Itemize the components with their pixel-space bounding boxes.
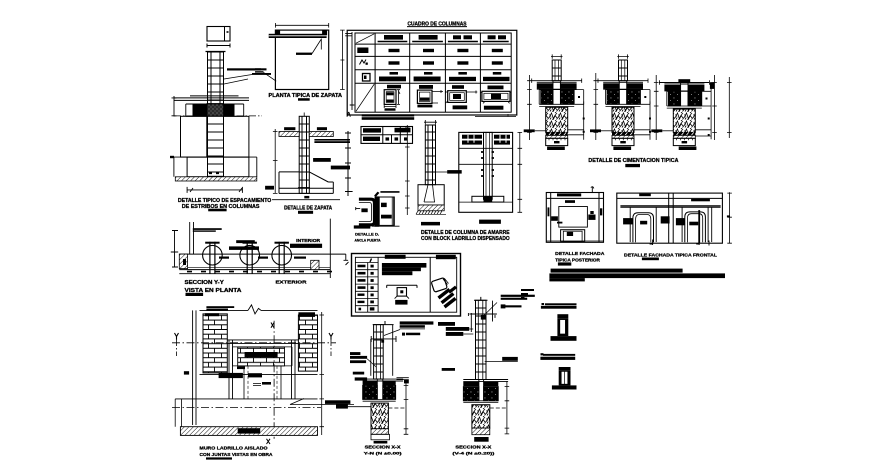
H right post bar (600, 208, 602, 215)
F2 beam bar right (627, 83, 643, 89)
I label underline (642, 258, 659, 261)
left dim line (273, 129, 278, 193)
E footing box (418, 185, 444, 205)
E box (459, 132, 513, 212)
right dim line B (340, 30, 345, 89)
M right dim (319, 312, 324, 435)
F2 block outline (606, 90, 641, 105)
N2 top annotation bar far left (438, 322, 455, 326)
E column inner bars (427, 125, 429, 185)
jamb inner line (359, 203, 372, 222)
N1 left leader line (367, 359, 376, 368)
N2 top leader (484, 303, 497, 316)
F3 right lines (695, 130, 711, 136)
F1 slab end ticks (532, 79, 582, 83)
header bar C2 (384, 35, 403, 40)
F3 bottom bar (679, 147, 697, 151)
F3 beam bar left (664, 85, 680, 91)
L annotation bar 2 (193, 230, 216, 231)
M top line (200, 309, 318, 311)
M lower wall line (175, 398, 317, 400)
F1 right cell (574, 90, 584, 105)
I bay2 inner verticals (682, 207, 712, 242)
svg-text:DETALLE D.: DETALLE D. (355, 232, 379, 237)
L column 3 cap (275, 242, 289, 244)
N1 left leader (342, 406, 371, 408)
F2 right lines (634, 101, 650, 139)
svg-text:SECCION X-X: SECCION X-X (455, 445, 491, 450)
F1 ground bar left (524, 129, 535, 132)
N2 right leader (485, 361, 518, 363)
K subtable marks col1 (358, 265, 366, 268)
E footing center black (484, 196, 493, 202)
column cap box (207, 27, 230, 42)
I outer frame (617, 193, 723, 243)
K header bar right (436, 255, 456, 259)
L column circle 3 (272, 245, 292, 265)
K right tilted plate (431, 278, 448, 293)
svg-text:CON BLOCK LADRILLO DISPENSADO: CON BLOCK LADRILLO DISPENSADO (421, 236, 510, 242)
O2 top thin bar (543, 354, 575, 356)
column top cap line (206, 51, 226, 53)
row4 small bars (390, 72, 399, 75)
M ground hatch strip (180, 427, 317, 436)
F2 speckled block left (607, 90, 619, 105)
foundation detail F2 (590, 54, 651, 145)
left dim line of slab (172, 96, 177, 117)
right box bar 2 (381, 215, 392, 219)
F3 beam bar right (688, 85, 704, 91)
N1 mid node (381, 340, 384, 343)
row2 symbol cell1 (357, 48, 368, 54)
corner cell diagonal row5 (356, 84, 374, 111)
M window frame lines (233, 347, 293, 366)
M inner door verticals (244, 366, 281, 399)
H door (561, 230, 585, 242)
L window bar wide (229, 246, 259, 250)
M Y mark right (329, 333, 333, 340)
N1 speckled block right (383, 385, 396, 399)
F label underline (625, 164, 640, 167)
F1 pier hatch strip light (546, 135, 568, 138)
F1 bottom bar (547, 147, 565, 151)
row4 symbol cell1 (363, 74, 371, 82)
E horizontal lines (459, 148, 513, 164)
row3 symbol cell1 (360, 60, 367, 65)
beam band (269, 34, 327, 38)
leader lines (224, 75, 252, 85)
svg-text:(V-4 (N ±0.20)): (V-4 (N ±0.20)) (452, 450, 495, 455)
F3 column core (681, 83, 688, 107)
M right pier top bar (298, 312, 315, 317)
svg-text:DETALLE FACHADA: DETALLE FACHADA (555, 251, 605, 257)
O2 dot (541, 353, 544, 355)
O1 door leaf white (560, 320, 566, 334)
M mid black marks (219, 373, 243, 378)
right leader bar 4 (331, 166, 350, 170)
zapata column inner bars (301, 116, 303, 193)
row2 bars (389, 49, 400, 52)
H left steps (551, 216, 558, 221)
F3 block outline (667, 91, 702, 106)
N2 leader dot (501, 304, 506, 308)
I top band bar bay2 (691, 199, 710, 202)
svg-text:SECCION Y-Y: SECCION Y-Y (185, 280, 225, 286)
F3 ground bar left (651, 129, 662, 132)
F2 lower box ticks (615, 138, 631, 140)
F2 speckled block right (627, 90, 640, 105)
zapata square (275, 30, 328, 89)
I bay1 left steps (623, 218, 633, 224)
table column dividers (375, 33, 480, 112)
header bar C5 (488, 35, 496, 39)
M X mark bottom (267, 439, 271, 444)
N2 bottom bar (474, 437, 488, 442)
N1 lower box (371, 434, 390, 440)
M left brick pier (203, 314, 227, 373)
row3 bars (389, 61, 400, 64)
E course white joints (468, 135, 506, 143)
O1 jamb body (557, 318, 568, 336)
corner block left (276, 31, 280, 35)
M top annotation bars (206, 306, 234, 308)
F2 right cell (641, 90, 651, 105)
N1 leader node (402, 333, 405, 336)
thin note line under table right (475, 114, 516, 117)
F2 stone pier (612, 107, 634, 132)
wall right (223, 116, 249, 157)
jamb inner anchor bar (361, 208, 367, 212)
N1 column (374, 325, 384, 380)
F3 pier hatch strip dark (673, 132, 695, 135)
K subtable rows (355, 263, 378, 306)
F1 pier hatch strip dark (546, 132, 568, 135)
F1 column core (553, 81, 560, 105)
N2 column top cap (474, 297, 488, 300)
M window inner bar (245, 352, 278, 357)
leader bar 2 (252, 73, 271, 75)
left arrow tick (356, 207, 361, 210)
F3 speckled block right (688, 91, 701, 106)
M leader right bar (325, 400, 350, 404)
F3 slab lines (659, 83, 709, 91)
dim bracket A left of table (345, 32, 354, 110)
N2 slab bar left (463, 382, 479, 386)
L label underline (186, 293, 204, 296)
row3 symbol dot (366, 63, 368, 65)
F3 right cell (702, 82, 711, 139)
H top band line (546, 197, 603, 199)
right leader bar 3 (313, 158, 331, 162)
F2 lower box (612, 138, 634, 145)
F2 pier hatch strip light (612, 135, 634, 138)
F3 slab end cap (710, 82, 714, 89)
F1 speckled block right (560, 90, 573, 105)
I bay2 door (685, 212, 706, 242)
L annotation bar 1 (193, 228, 222, 230)
header bar C3 (419, 35, 438, 40)
section C3: square column section (417, 85, 443, 107)
I bay1 door (633, 213, 654, 243)
left leader bar 2 (255, 71, 264, 72)
N2 pier hatch strip (472, 428, 490, 435)
E right dim (518, 132, 523, 212)
N1 bottom bar (374, 441, 388, 444)
M dashdot lower (172, 407, 321, 409)
cap dim line (207, 44, 230, 48)
O1 top thick bar (541, 306, 577, 309)
L wall top line (179, 253, 345, 255)
column shaft lower (208, 116, 224, 176)
F3 left dim (654, 75, 659, 140)
F1 ground line left (535, 130, 546, 132)
svg-text:DETALLE DE ZAPATA: DETALLE DE ZAPATA (284, 205, 332, 211)
N1 lines below blocks (363, 399, 396, 401)
E column top dim (424, 120, 437, 124)
section N2: seccion X-X right (442, 295, 535, 442)
N1 slab band lines (363, 379, 404, 381)
I bay2 left steps (676, 218, 685, 225)
footing dim line (187, 187, 242, 193)
svg-text:MURO LADRILLO AISLADO: MURO LADRILLO AISLADO (200, 446, 268, 451)
right leader bar 2 (314, 141, 350, 143)
detail B: planta tipica de zapata (255, 23, 345, 90)
H top right flag (591, 187, 594, 193)
F2 left dim (594, 73, 599, 140)
F2 sub-slab line (606, 105, 641, 107)
L column 2 posts (247, 242, 252, 274)
F2 ground line left (601, 130, 612, 132)
I mullion center (669, 193, 674, 243)
M lintel lines (227, 340, 298, 344)
slab block right (224, 105, 235, 117)
F1 sub-slab lines (539, 105, 574, 107)
footing stirrup hooks (298, 172, 310, 188)
planta label underline (298, 98, 310, 101)
door head detail O2 (540, 353, 576, 389)
H door inner bars (567, 232, 573, 236)
L left dim bracket (171, 231, 178, 268)
M center dashdot vertical (273, 321, 275, 439)
M Y dashdot right (330, 340, 332, 356)
N1 left leader bar (336, 404, 348, 409)
legend box K (352, 254, 461, 317)
M dashdot horizontal YY (172, 342, 336, 344)
E bottom bar right (479, 220, 501, 224)
I heavy lintel line (620, 206, 720, 207)
dim bracket left of anchor detail (345, 131, 353, 196)
K subtable columns (368, 257, 378, 312)
N1 stone pier (371, 403, 388, 429)
N1 node bar (406, 333, 420, 336)
ground hatch left (279, 132, 299, 137)
I top band line (617, 197, 723, 199)
N1 right dim (397, 378, 409, 435)
E footing (472, 196, 504, 202)
center leader bar (296, 53, 312, 55)
center leader lines (312, 39, 321, 54)
L column circle 2 (240, 245, 260, 265)
F2 slab end ticks (598, 79, 648, 83)
E block course row 2 left (462, 141, 482, 145)
beam band white core (269, 35, 327, 37)
right leader bar 1 (314, 139, 350, 141)
F3 stone pier (673, 109, 695, 132)
N2 left annotation bars (446, 327, 469, 331)
N2 top annotation bars (501, 295, 535, 297)
K hanger flares (395, 296, 409, 299)
svg-text:Y-N (N ±0.00): Y-N (N ±0.00) (364, 450, 403, 455)
K inner box (355, 257, 456, 312)
I bay1 inner verticals (630, 207, 656, 242)
N1 slab bar right (383, 382, 396, 386)
O1 top thin bar (545, 303, 577, 305)
jamb rounded frame (359, 199, 375, 225)
N1 mid dim line (371, 336, 397, 342)
detail E right: block wall box (459, 132, 522, 212)
table inner frame (355, 33, 511, 112)
M Y dashdot left (176, 340, 178, 356)
E central column inner (486, 132, 490, 199)
N1 pier hatch strip (371, 429, 388, 435)
K header bar left (385, 255, 406, 259)
E central column (484, 132, 493, 199)
table row dividers (355, 44, 511, 83)
header bar C4 (453, 35, 461, 39)
E leader line (436, 171, 459, 173)
L right end bracket (330, 219, 348, 278)
slab top lines (174, 96, 249, 101)
E ground tick row (416, 211, 446, 215)
svg-text:INTERIOR: INTERIOR (296, 238, 321, 244)
bottom boundary line (372, 225, 400, 227)
zapata column shaft (299, 116, 309, 193)
H right post (598, 193, 600, 243)
F1 beam bar left (537, 83, 553, 89)
L column 2 cap (243, 242, 257, 244)
ground hatch right (309, 132, 333, 137)
F1 left dim (527, 75, 532, 140)
N2 right leader bar (502, 357, 518, 361)
tiny scale glyph (521, 289, 534, 291)
I bottom ticks (650, 240, 709, 246)
L top-left wall return (190, 222, 194, 254)
right box inner verticals (392, 197, 393, 225)
M small marks under lintel (237, 367, 245, 370)
section L: seccion Y-Y vista en planta (171, 219, 349, 278)
N1 column top cap (373, 321, 394, 325)
H left post (550, 193, 552, 243)
F1 right lines (568, 101, 584, 139)
facade I: detalle fachada tipica frontal (617, 192, 732, 245)
H bottom double line (546, 240, 603, 242)
corner cell diagonal row1 (356, 34, 374, 43)
section N1: seccion X-X left (336, 321, 433, 444)
L interior bars in wall (219, 257, 229, 259)
F2 stub top dim (617, 54, 629, 58)
N1 speckled block left (363, 385, 378, 399)
L wall bottom line (179, 269, 330, 271)
note bar row 2 (549, 273, 725, 278)
F1 lower box (546, 138, 568, 145)
F2 bottom bar (613, 147, 631, 151)
note bar row 3 (549, 278, 584, 281)
ground annotation bar left (284, 127, 295, 130)
column inner bars (210, 52, 212, 177)
wall left (181, 116, 207, 157)
L wall inner line (179, 266, 330, 268)
H inner window frame (559, 207, 588, 228)
svg-text:DETALLE FACHADA TIPICA FRONTAL: DETALLE FACHADA TIPICA FRONTAL (624, 252, 717, 258)
K outer box (352, 254, 461, 317)
footing bottom bar (304, 196, 309, 199)
section C5: wide column section (480, 86, 511, 110)
N2 speckled block right (484, 387, 499, 401)
N2 speckled block left (463, 387, 479, 401)
M mid line (200, 374, 318, 376)
M posts left (229, 340, 233, 399)
note bar row 1 (551, 269, 683, 273)
M leader right (290, 399, 354, 405)
K hanger dot (400, 290, 403, 293)
N2 column (476, 300, 487, 379)
O2 leaf inner line (564, 371, 566, 384)
right box (379, 197, 394, 225)
footing block (187, 157, 249, 177)
L window bar upper (236, 240, 255, 243)
F1 slab lines (532, 81, 582, 90)
H right steps (588, 215, 595, 220)
M left pier top bar (205, 313, 219, 316)
O2 head bar (559, 367, 571, 370)
E footing line (459, 201, 513, 203)
leader bar 1 (227, 68, 261, 70)
F2 ground bar left (590, 129, 601, 132)
E block course row 1 right (494, 135, 510, 139)
N2 slab bar right (484, 382, 499, 386)
door post black bar (375, 196, 380, 226)
zapata column top tick (303, 113, 305, 117)
table outer frame (347, 30, 517, 115)
O2 door leaf white (561, 371, 568, 384)
N2 slab band lines (463, 380, 508, 382)
H label underline (558, 262, 571, 265)
top boundary lines (380, 190, 399, 193)
F3 right dims (712, 75, 731, 140)
svg-text:EXTERIOR: EXTERIOR (276, 280, 308, 286)
N1 top annotation bars (400, 321, 434, 324)
F3 ground line left (662, 130, 673, 132)
O2 base bar (552, 385, 577, 389)
anchor bottom bar (354, 225, 371, 228)
N1 left annotation bars (350, 352, 360, 355)
foundation detail F1 (524, 54, 585, 145)
K notes text block (382, 263, 427, 268)
M posts right (292, 340, 296, 399)
L right bar (290, 244, 322, 248)
F2 beam bar left (603, 83, 619, 89)
F3 lower box (673, 138, 695, 145)
K mid black bar (395, 300, 407, 305)
L column 3 posts (279, 242, 284, 274)
F2 column stub (619, 60, 628, 81)
svg-text:PLANTA TIPICA DE ZAPATA: PLANTA TIPICA DE ZAPATA (269, 93, 343, 99)
N2 core verticals (479, 380, 484, 401)
right box bar 1 (381, 203, 387, 207)
left leader line (264, 72, 277, 81)
detail A label underline (208, 209, 226, 212)
excavation box (174, 157, 257, 177)
